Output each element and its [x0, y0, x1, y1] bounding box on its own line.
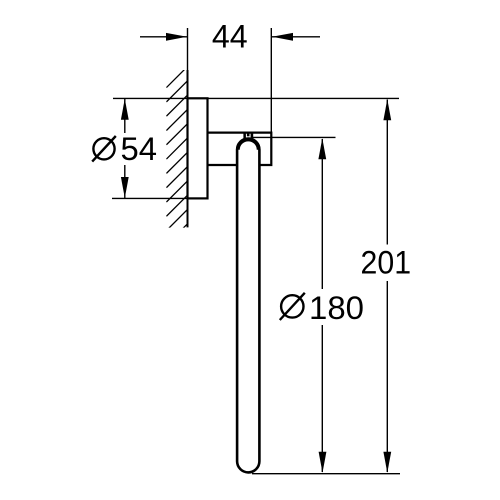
housing	[208, 133, 272, 165]
arrow 44 left	[166, 33, 187, 41]
arrow Ø54 up	[121, 99, 129, 120]
svg-text:54: 54	[121, 131, 158, 167]
arrow 201 down	[383, 452, 391, 473]
extension line Ø180 top	[253, 136, 336, 138]
arrow Ø180 down	[319, 452, 327, 473]
bottom extension line of plate	[112, 197, 188, 199]
svg-text:201: 201	[361, 244, 412, 280]
wall line	[187, 28, 189, 70]
bottom extension line	[252, 473, 400, 475]
dim line Ø180 upper segment	[321, 139, 323, 289]
arrow Ø54 down	[121, 177, 129, 198]
label Ø180	[280, 293, 305, 320]
wall plate	[188, 98, 208, 198]
dim line Ø54 upper segment	[124, 99, 126, 133]
dim line 44 left segment	[140, 36, 187, 38]
dim line 201 upper segment	[386, 100, 388, 245]
dim line 44 right segment	[272, 36, 320, 38]
extension line right of 44	[270, 28, 272, 132]
svg-text:180: 180	[309, 290, 364, 326]
top extension line	[113, 97, 399, 99]
dim line Ø180 lower segment	[321, 325, 323, 472]
label Ø54	[92, 136, 116, 162]
ring outer	[237, 139, 259, 473]
wall hatching	[166, 67, 187, 245]
arrow 201 up	[383, 99, 391, 120]
dim line Ø54 lower segment	[124, 165, 126, 198]
svg-text:44: 44	[212, 19, 248, 55]
ring top arch thickening	[238, 139, 259, 149]
attachment tabs and pin	[243, 132, 246, 139]
dim line 201 lower segment	[386, 281, 388, 472]
arrow 44 right	[272, 33, 293, 41]
arrow Ø180 up	[318, 138, 326, 159]
